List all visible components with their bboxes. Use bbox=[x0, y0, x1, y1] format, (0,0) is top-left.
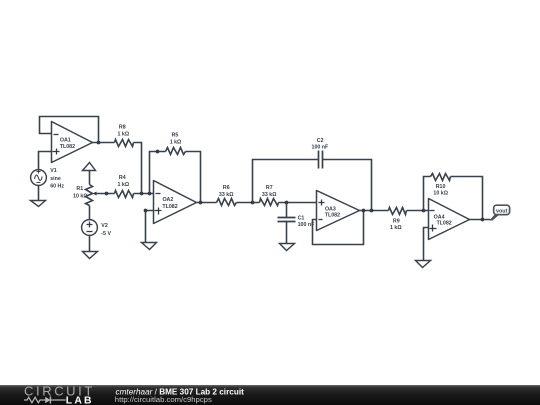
svg-text:TL082: TL082 bbox=[60, 144, 75, 150]
node OA2 + corner bbox=[144, 209, 148, 213]
wire C1 bottom to ground bbox=[286, 222, 288, 244]
node C2 right junction bbox=[370, 209, 374, 213]
wire V1 top to OA1 + input bbox=[39, 152, 52, 170]
svg-text:C1: C1 bbox=[298, 216, 305, 222]
ground below C1 bbox=[280, 244, 295, 251]
svg-text:1 kΩ: 1 kΩ bbox=[117, 131, 129, 137]
svg-text:TL082: TL082 bbox=[162, 204, 177, 210]
footer bar bbox=[0, 385, 540, 405]
svg-text:60 Hz: 60 Hz bbox=[50, 184, 64, 190]
wire OA1 output bbox=[93, 142, 115, 144]
svg-text:OA1: OA1 bbox=[60, 138, 71, 144]
wire OA4 output bbox=[470, 219, 491, 221]
wire OA1 feedback loop output to inverting input bbox=[40, 117, 99, 143]
wire V2 to ground bbox=[89, 236, 91, 252]
resistor R10 10 kOhm bbox=[431, 174, 451, 181]
supply arrow above R1 bbox=[83, 163, 96, 171]
node OA3 output junction bbox=[362, 209, 366, 213]
svg-text:R6: R6 bbox=[223, 185, 230, 191]
label C2 bbox=[312, 138, 330, 150]
wire R10 feedback loop left bbox=[424, 177, 431, 211]
wire C1 top bbox=[286, 203, 288, 218]
wire OA3 feedback output to inverting input bbox=[313, 211, 364, 245]
label OA1 bbox=[60, 138, 75, 151]
svg-text:OA3: OA3 bbox=[325, 207, 336, 213]
svg-text:vout: vout bbox=[496, 208, 508, 214]
node OA2 output junction bbox=[199, 201, 203, 205]
svg-text:R5: R5 bbox=[172, 132, 179, 138]
svg-text:http://circuitlab.com/c9hpcps: http://circuitlab.com/c9hpcps bbox=[115, 395, 212, 404]
wire R8 to summing node bbox=[134, 143, 142, 194]
svg-text:sine: sine bbox=[50, 176, 61, 182]
svg-text:C2: C2 bbox=[317, 138, 324, 144]
wire OA2 + input to ground bbox=[146, 211, 154, 243]
svg-text:R7: R7 bbox=[266, 185, 273, 191]
label R1 bbox=[73, 186, 88, 199]
svg-text:TL082: TL082 bbox=[325, 213, 340, 219]
node on R5 wire bbox=[156, 150, 160, 154]
logo circuit line art bbox=[24, 396, 66, 403]
svg-text:R10: R10 bbox=[436, 184, 446, 190]
svg-text:LAB: LAB bbox=[66, 395, 94, 405]
svg-text:TL082: TL082 bbox=[436, 221, 451, 227]
wire OA2 output bbox=[197, 202, 217, 204]
resistor R6 33 kOhm bbox=[217, 199, 237, 206]
node C2 tap junction bbox=[251, 201, 255, 205]
svg-text:-5 V: -5 V bbox=[101, 231, 111, 237]
label R6 bbox=[219, 185, 234, 198]
wire R5 to OA2 output bbox=[186, 152, 201, 203]
svg-text:1 kΩ: 1 kΩ bbox=[117, 182, 129, 188]
node R10 feedback junction bbox=[422, 209, 426, 213]
node R5 feedback junction bbox=[148, 192, 152, 196]
op-amp OA2 TL082 bbox=[154, 181, 197, 224]
wire R10 feedback loop right bbox=[451, 177, 483, 220]
label OA3 bbox=[325, 207, 340, 219]
svg-text:10 kΩ: 10 kΩ bbox=[433, 191, 448, 197]
node R8/R4 junction bbox=[140, 192, 144, 196]
op-amp OA1 TL082 bbox=[52, 122, 93, 163]
op-amp OA4 TL082 bbox=[429, 199, 470, 240]
potentiometer R1 10 kOhm bbox=[86, 185, 97, 206]
svg-text:33 kΩ: 33 kΩ bbox=[219, 192, 234, 198]
wire R1 bottom to V2 bbox=[89, 206, 91, 220]
label OA2 bbox=[162, 197, 177, 210]
resistor R5 1 kOhm bbox=[166, 148, 186, 155]
node flag vout bbox=[490, 205, 510, 220]
label R7 bbox=[262, 185, 277, 198]
label V2 bbox=[101, 223, 111, 237]
svg-text:1 kΩ: 1 kΩ bbox=[390, 225, 402, 231]
wire C2 feedback loop right bbox=[323, 160, 372, 211]
label R5 bbox=[170, 132, 182, 145]
label R9 bbox=[390, 219, 402, 232]
wire R4 to OA2 inverting input bbox=[134, 193, 154, 195]
svg-text:100 nF: 100 nF bbox=[312, 144, 330, 150]
label V1 bbox=[50, 168, 64, 190]
svg-text:V2: V2 bbox=[101, 223, 108, 229]
svg-text:1 kΩ: 1 kΩ bbox=[170, 139, 182, 145]
svg-text:OA2: OA2 bbox=[162, 197, 173, 203]
resistor R4 1 kOhm bbox=[115, 191, 134, 198]
svg-text:R9: R9 bbox=[393, 219, 400, 225]
wire OA3 output bbox=[360, 210, 389, 212]
svg-text:OA4: OA4 bbox=[434, 214, 445, 220]
label R4 bbox=[117, 175, 129, 188]
op-amp OA3 TL082 bbox=[317, 191, 360, 231]
svg-text:R8: R8 bbox=[119, 124, 126, 130]
node wiper wire junction bbox=[105, 192, 109, 196]
ground below V2 bbox=[83, 252, 98, 259]
wire R1 wiper to R4 bbox=[97, 193, 115, 195]
svg-text:R4: R4 bbox=[119, 175, 126, 181]
ground below OA2 bbox=[142, 243, 157, 250]
wire R9 to OA4 inverting input bbox=[407, 210, 429, 212]
wire R6 to R7 bbox=[237, 202, 260, 204]
label R10 bbox=[433, 184, 448, 196]
voltage source V1 sine 60 Hz bbox=[31, 170, 47, 186]
svg-text:10 kΩ: 10 kΩ bbox=[73, 193, 88, 199]
wire supply to R1 bbox=[89, 171, 91, 185]
label C1 bbox=[298, 216, 316, 228]
resistor R9 1 kOhm bbox=[389, 208, 407, 215]
ground below OA4 bbox=[416, 261, 431, 268]
node C1 junction bbox=[285, 201, 289, 205]
ground below V1 bbox=[31, 201, 46, 207]
capacitor C1 100 nF bbox=[278, 218, 296, 222]
wire C2 feedback loop left bbox=[253, 160, 319, 203]
node OA4 output junction bbox=[481, 218, 485, 222]
svg-text:V1: V1 bbox=[50, 168, 57, 174]
label OA4 bbox=[434, 214, 452, 226]
svg-text:33 kΩ: 33 kΩ bbox=[262, 192, 277, 198]
wire V1 bottom to ground bbox=[38, 186, 40, 201]
wire R5 feedback loop bbox=[150, 152, 166, 194]
resistor R8 1 kOhm bbox=[115, 140, 134, 147]
capacitor C2 100 nF bbox=[319, 151, 323, 169]
node OA1 output junction bbox=[97, 141, 101, 145]
wire OA4 + input to ground bbox=[424, 228, 429, 261]
svg-text:R1: R1 bbox=[76, 186, 83, 192]
resistor R7 33 kOhm bbox=[260, 199, 279, 206]
voltage source V2 -5 V bbox=[82, 220, 98, 236]
label R8 bbox=[117, 124, 129, 137]
wire R7 to OA3 + input bbox=[279, 202, 317, 204]
